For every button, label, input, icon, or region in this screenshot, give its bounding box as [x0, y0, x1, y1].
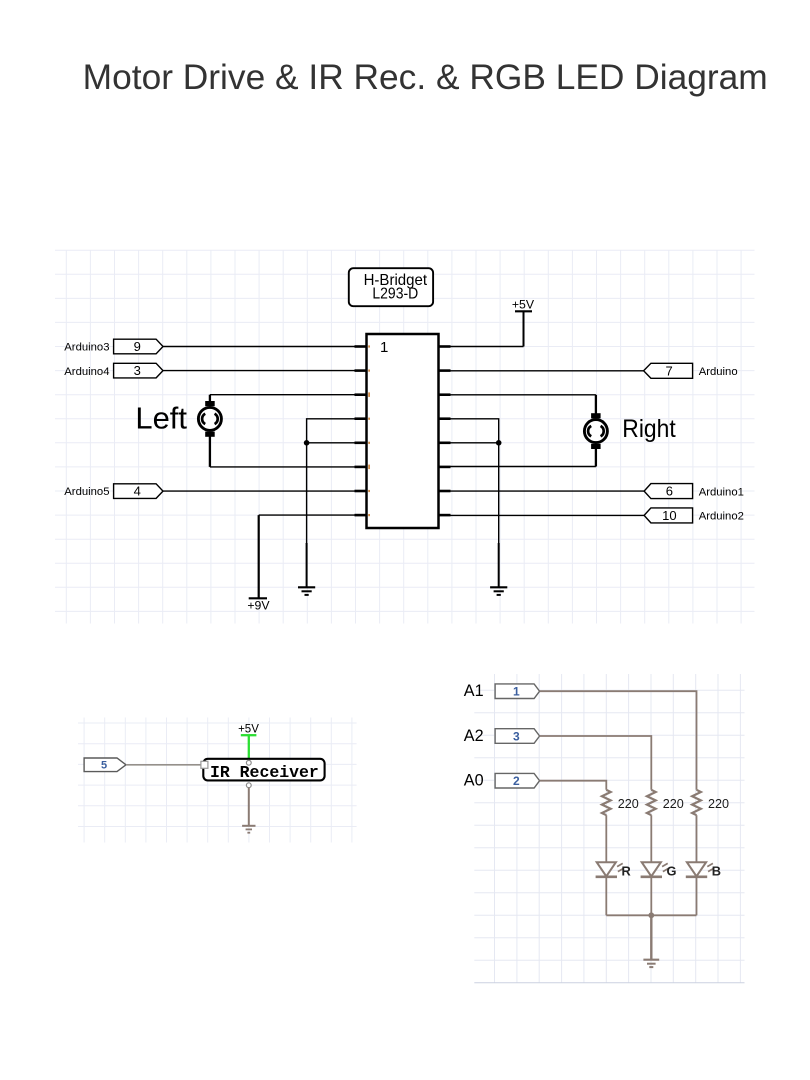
pin flag 7 (Arduino): [644, 363, 693, 378]
label R: [622, 864, 631, 879]
wire pin16 right (U1 to +5V): [451, 346, 524, 348]
wire pin9 right (U1 to flag 10): [451, 514, 645, 516]
wire resistor R2 to LED: [650, 815, 652, 862]
connection square pin (IR left): [201, 761, 208, 768]
value label 220 (R1): [618, 797, 639, 811]
LED D1 (R): [596, 862, 624, 877]
value label 220 (R3): [708, 797, 729, 811]
label B: [712, 864, 721, 879]
resistor R3 220: [692, 790, 701, 815]
wire pin3 left (motor M1 top to U1): [210, 394, 355, 396]
svg-text:5: 5: [101, 760, 107, 772]
svg-text:G: G: [667, 864, 677, 879]
node Arduino3 label: [64, 342, 109, 354]
wire resistor R3 to LED: [696, 815, 698, 862]
svg-text:A2: A2: [464, 727, 484, 745]
LED D2 (G): [641, 862, 669, 877]
wire resistor R1 to LED: [605, 815, 607, 862]
resistor R1 220: [602, 790, 611, 815]
svg-text:220: 220: [708, 797, 729, 811]
svg-text:3: 3: [134, 363, 141, 378]
label Right: [622, 415, 675, 443]
svg-text:Motor Drive & IR Rec. & RGB LE: Motor Drive & IR Rec. & RGB LED Diagram: [83, 58, 768, 97]
pin flag 10 (Arduino2): [644, 508, 693, 523]
connection circle pin (IR top): [246, 760, 251, 765]
svg-text:6: 6: [666, 484, 673, 499]
svg-text:3: 3: [513, 729, 520, 743]
pin flag 3 (Arduino4): [114, 363, 163, 378]
junction dot right (pins 12-13 tie): [496, 440, 502, 446]
svg-text:A0: A0: [464, 772, 484, 790]
wire pin6 left (motor M1 bottom to U1): [210, 466, 355, 468]
svg-text:A1: A1: [464, 682, 484, 700]
pin flag 3 (A2): [495, 729, 539, 744]
svg-text:220: 220: [618, 797, 639, 811]
ground symbol right: [490, 543, 507, 595]
svg-text:IR Receiver: IR Receiver: [210, 763, 319, 782]
motor M2 (Right) leads: [595, 395, 597, 467]
pin flag 1 (A1): [495, 684, 539, 699]
wire LED D3 to bus: [696, 877, 698, 916]
svg-text:Arduino1: Arduino1: [699, 486, 744, 498]
junction dot left (pins 4-5 tie): [304, 440, 310, 446]
svg-text:2: 2: [513, 774, 520, 788]
wire pin7 left (flag 4 to U1): [163, 490, 355, 492]
node A1 label: [464, 682, 484, 700]
svg-text:10: 10: [662, 508, 676, 523]
wire pin13 right (U1 to ground drop): [451, 419, 499, 544]
wire pin4 left (U1 to ground drop): [307, 419, 355, 544]
pin flag 9 (Arduino3): [114, 339, 163, 354]
pin flag 2 (A0): [495, 773, 539, 788]
power +9V label: [247, 599, 270, 613]
svg-text:+5V: +5V: [512, 298, 535, 312]
node Arduino5 label: [64, 486, 109, 498]
op-amp/driver IC U1 L293D body: [367, 334, 439, 528]
motor M2 (Right): [584, 413, 607, 449]
ground symbol left: [298, 543, 315, 595]
junction dot (RGB bus): [648, 912, 654, 918]
node Arduino1 label: [699, 486, 744, 498]
IC U1 right pin stubs 9-16: [439, 347, 451, 516]
wire IR bottom to ground: [248, 788, 250, 826]
decorative grid (main schematic): [55, 250, 755, 624]
svg-text:Arduino2: Arduino2: [699, 511, 744, 523]
svg-text:Right: Right: [622, 415, 675, 443]
label Left: [135, 401, 187, 435]
label G: [667, 864, 677, 879]
power +5V rail and wire (IR, green): [241, 735, 257, 761]
value label 220 (R2): [663, 797, 684, 811]
svg-text:7: 7: [665, 363, 672, 378]
svg-text:1: 1: [513, 685, 520, 699]
pin flag 4 (Arduino5): [114, 484, 163, 499]
wire pin11 right (U1 to motor M2 bottom): [451, 466, 596, 468]
node A2 label: [464, 727, 484, 745]
svg-text:Arduino4: Arduino4: [64, 366, 109, 378]
wire pin2 left (flag 3 to U1): [163, 370, 355, 372]
LED D3 (B): [686, 862, 714, 877]
node A0 label: [464, 772, 484, 790]
svg-text:R: R: [622, 864, 631, 879]
IC U1 tiny orange pin-number marks: [368, 345, 370, 516]
wire A2 to resistor column 2: [540, 736, 652, 790]
power +9V stem and rail symbol: [249, 515, 267, 598]
connection circle pin (IR bottom): [246, 783, 251, 788]
decorative grid (RGB LED area): [474, 674, 744, 983]
wire pin5 left (junction to U1): [307, 442, 355, 444]
svg-text:L293-D: L293-D: [372, 285, 418, 302]
wire A0 to resistor column 1: [540, 781, 607, 790]
wire pin10 right (U1 to flag 6): [451, 490, 645, 492]
wire LED D2 to bus: [650, 877, 652, 916]
power +5V label (IR): [238, 723, 259, 735]
wire pin15 right (U1 to flag 7): [451, 370, 644, 372]
node Arduino label: [699, 366, 738, 378]
wire pin12 right (junction to U1): [451, 442, 499, 444]
svg-text:Arduino3: Arduino3: [64, 342, 109, 354]
ground symbol (IR, taupe): [242, 826, 255, 833]
svg-text:Arduino: Arduino: [699, 366, 738, 378]
wire pin8 left (U1 to +9V drop): [259, 514, 355, 516]
label box H-Bridget L293-D: [349, 268, 433, 306]
wire pin1 left (flag 9 to U1): [163, 346, 355, 348]
IC U1 left pin stubs 1-8: [355, 347, 367, 516]
wire ground bus: [606, 914, 696, 916]
decorative grid (IR receiver area): [78, 718, 357, 843]
motor M1 (Left): [198, 401, 221, 437]
node Arduino2 label: [699, 511, 744, 523]
wire A1 to resistor column 3: [540, 691, 697, 790]
pin flag 5 (IR input): [84, 758, 126, 772]
title text: [83, 58, 768, 97]
power +5V label: [512, 298, 535, 312]
svg-text:+9V: +9V: [247, 599, 270, 613]
wire pin14 right (U1 to motor M2 top): [451, 394, 596, 396]
wire bus to ground (RGB): [650, 915, 652, 959]
svg-text:4: 4: [134, 484, 141, 499]
svg-text:Arduino5: Arduino5: [64, 486, 109, 498]
svg-text:9: 9: [134, 339, 141, 354]
power +5V rail symbol and stem: [515, 311, 532, 346]
svg-text:220: 220: [663, 797, 684, 811]
wire flag 5 to IR receiver: [126, 764, 203, 766]
svg-text:Left: Left: [135, 401, 187, 435]
wire LED D1 to bus: [605, 877, 607, 916]
svg-text:1: 1: [380, 339, 388, 356]
pin flag 6 (Arduino1): [644, 484, 693, 499]
svg-text:B: B: [712, 864, 721, 879]
resistor R2 220: [647, 790, 656, 815]
IR receiver box U2: [203, 759, 324, 782]
svg-text:+5V: +5V: [238, 723, 259, 735]
motor M1 (Left) leads: [209, 395, 211, 467]
ground symbol (RGB, taupe): [643, 960, 659, 967]
node Arduino4 label: [64, 366, 109, 378]
